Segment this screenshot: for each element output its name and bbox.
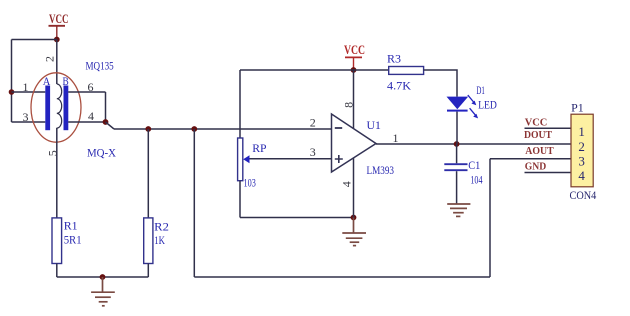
wire: pin6 to pin4 vertical: [105, 92, 107, 122]
svg-text:C1: C1: [468, 158, 480, 172]
power symbol VCC (center): [344, 42, 365, 70]
junction dot under op-amp: [351, 215, 357, 221]
wire: left rail vertical: [11, 40, 13, 123]
svg-text:1: 1: [393, 131, 399, 145]
wire: LED to output node: [456, 112, 458, 144]
wire: GND stub to connector: [525, 172, 572, 174]
svg-text:P1: P1: [571, 101, 584, 115]
junction dot output node: [454, 141, 460, 147]
svg-text:1: 1: [578, 124, 585, 139]
LED D1 triangle: [447, 97, 469, 110]
wire: diagonal from sensor output: [106, 122, 115, 129]
wire: RP top lead: [239, 70, 241, 138]
svg-text:1: 1: [23, 80, 29, 94]
svg-text:104: 104: [470, 173, 482, 187]
wire: output to connector DOUT: [376, 143, 571, 145]
wire: VCC stub to connector: [525, 127, 572, 129]
sensor MQ135 envelope ellipse: [31, 73, 81, 142]
wire: bottom ground rail: [57, 276, 149, 278]
wire: top-left rail horizontal: [12, 39, 57, 41]
wire: VCC rail to RP: [240, 69, 354, 71]
wire: R2 bottom lead: [147, 264, 149, 278]
op-amp U1 triangle: [332, 114, 377, 172]
wire: C1 top lead: [456, 144, 458, 163]
junction dot pin1 left rail: [9, 89, 15, 95]
svg-text:R1: R1: [64, 218, 78, 232]
wire: ground run under op-amp: [240, 217, 354, 219]
svg-text:4.7K: 4.7K: [387, 79, 411, 93]
op-amp minus sign: [335, 127, 342, 129]
junction dot sensor output: [103, 119, 109, 125]
wire: AOUT loop bottom: [194, 276, 490, 278]
svg-text:R3: R3: [387, 52, 401, 66]
wire: pin 5 lead down to R1: [56, 128, 58, 218]
wire: pin 6: [68, 91, 105, 93]
svg-text:2: 2: [310, 115, 316, 129]
wire: sensor output node to comparator pin2: [114, 128, 332, 130]
svg-text:2: 2: [578, 139, 585, 154]
junction dot at AOUT takeoff: [191, 126, 197, 132]
svg-text:MQ-X: MQ-X: [87, 145, 116, 159]
wire: VCC rail to R3: [354, 69, 389, 71]
sensor heater coil: [57, 84, 62, 128]
wire: R3 to LED corner: [424, 70, 457, 97]
connector P1 body: [571, 114, 593, 187]
svg-text:3: 3: [310, 145, 316, 159]
wire: AOUT loop down: [193, 129, 195, 277]
svg-text:8: 8: [342, 102, 356, 108]
power symbol VCC (top-left): [49, 11, 69, 40]
wire: pin 4: [68, 121, 105, 123]
resistor R2 body: [144, 218, 153, 264]
svg-text:AOUT: AOUT: [525, 145, 554, 157]
resistor R1 body: [52, 218, 62, 264]
svg-text:B: B: [63, 76, 69, 88]
ground symbol (under C1): [447, 204, 470, 216]
ground symbol (under op-amp): [342, 218, 366, 246]
svg-text:VCC: VCC: [344, 42, 365, 57]
svg-text:103: 103: [244, 175, 256, 189]
wire: pin 2 lead (VCC to heater top): [56, 40, 58, 85]
svg-text:2: 2: [43, 56, 57, 62]
svg-text:4: 4: [88, 109, 94, 123]
svg-text:GND: GND: [525, 161, 547, 173]
svg-text:1K: 1K: [154, 233, 165, 247]
wire: R1 bottom lead: [56, 264, 58, 278]
junction dot at VCC center: [351, 67, 357, 73]
junction dot at R2 top: [145, 126, 151, 132]
svg-text:5: 5: [46, 150, 60, 156]
potentiometer RP wiper arrow: [243, 155, 249, 163]
wire: R2 top lead: [147, 129, 149, 218]
junction dot at ground rail: [100, 274, 106, 280]
svg-text:VCC: VCC: [49, 11, 69, 26]
svg-text:VCC: VCC: [525, 116, 548, 128]
junction dot at VCC top-left: [54, 37, 60, 43]
wire: RP bottom lead: [239, 181, 241, 218]
svg-text:D1: D1: [476, 85, 485, 97]
resistor R3 body: [389, 67, 424, 75]
wire: U1 pin4 lead: [353, 158, 355, 218]
LED D1 cathode bar: [447, 110, 468, 112]
svg-text:DOUT: DOUT: [524, 129, 553, 141]
LED emission arrow 2: [470, 108, 479, 118]
svg-text:MQ135: MQ135: [86, 58, 114, 72]
svg-text:4: 4: [339, 181, 353, 187]
op-amp plus sign: [335, 155, 343, 163]
ground symbol (bottom-left): [91, 277, 115, 306]
svg-text:R2: R2: [154, 219, 169, 233]
capacitor C1 plates: [444, 164, 467, 170]
svg-text:CON4: CON4: [570, 188, 597, 202]
svg-text:5R1: 5R1: [64, 232, 82, 246]
wire: C1 bottom lead: [456, 171, 458, 203]
sensor electrode A bar: [45, 86, 50, 131]
svg-text:LED: LED: [478, 100, 497, 112]
svg-text:LM393: LM393: [367, 163, 395, 177]
svg-text:U1: U1: [367, 118, 381, 132]
svg-text:3: 3: [23, 110, 29, 124]
wire: AOUT loop up: [489, 159, 491, 277]
wire: pin 1: [12, 91, 46, 93]
wire: RP wiper to pin3: [250, 158, 332, 160]
svg-text:3: 3: [578, 154, 585, 169]
wire: U1 pin8 lead: [353, 70, 355, 129]
svg-text:A: A: [43, 76, 51, 88]
sensor electrode B bar: [64, 86, 69, 131]
svg-text:4: 4: [578, 168, 585, 183]
wire: AOUT into connector: [490, 158, 571, 160]
svg-text:RP: RP: [252, 141, 267, 155]
wire: pin 3: [12, 121, 46, 123]
LED emission arrow 1: [468, 95, 477, 105]
svg-text:6: 6: [88, 80, 94, 94]
potentiometer RP body: [238, 138, 243, 181]
